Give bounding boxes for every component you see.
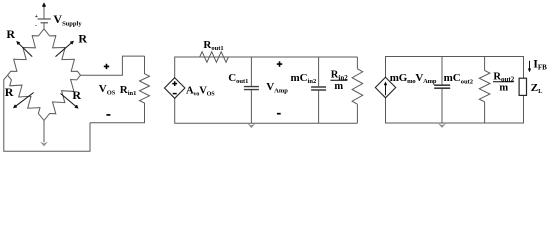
wire	[43, 23, 45, 29]
capacitor mCin2	[318, 57, 320, 123]
svg-text:m: m	[334, 81, 343, 92]
impedance Z_L (box)	[519, 78, 526, 95]
svg-text:R: R	[72, 88, 81, 102]
svg-text:AvoVOS: AvoVOS	[186, 85, 215, 97]
wire right of bridge	[81, 56, 145, 75]
svg-text:VSupply: VSupply	[53, 12, 82, 28]
arrow (variable R bottom-left)	[13, 93, 34, 109]
arrow (variable R top-right)	[56, 41, 75, 57]
ground (middle)	[248, 124, 256, 129]
wire middle loop	[175, 57, 358, 123]
resistor R (top-left)	[8, 29, 44, 75]
wire left loop	[4, 75, 90, 151]
svg-text:-: -	[35, 23, 37, 29]
svg-text:R: R	[78, 32, 87, 46]
svg-text:mGmoVAmp: mGmoVAmp	[390, 72, 437, 85]
svg-text:mCout2: mCout2	[444, 72, 473, 85]
capacitor mCout2	[434, 85, 450, 88]
resistor Rout1	[200, 52, 229, 63]
svg-text:R: R	[6, 27, 15, 41]
wire right loop	[386, 57, 524, 124]
dependent source U2 mGmo*Vamp (diamond, current)	[375, 77, 395, 98]
svg-text:VAmp: VAmp	[266, 81, 288, 94]
label + (Vamp)	[277, 61, 282, 66]
dependent source U1 Avo*Vos (diamond)	[165, 78, 185, 99]
svg-text:ZL: ZL	[531, 82, 543, 95]
resistor Rin1	[90, 56, 150, 123]
label + (Vos)	[104, 64, 109, 69]
label - (Vamp)	[277, 113, 281, 115]
resistor Rin2/m	[352, 69, 363, 104]
resistor R (top-right)	[44, 29, 81, 75]
svg-text:+: +	[35, 14, 39, 20]
resistor R (bottom-right)	[44, 75, 81, 120]
arrow (variable R top-left)	[16, 41, 32, 57]
svg-text:Rin1: Rin1	[120, 84, 137, 97]
ground (right)	[438, 123, 446, 128]
resistor Rout2/m	[479, 71, 490, 102]
ground (bridge)	[43, 121, 45, 143]
resistor R (bottom-left)	[8, 75, 44, 120]
label - (Vos)	[106, 114, 110, 116]
svg-text:IFB: IFB	[533, 57, 547, 72]
svg-text:Cout1: Cout1	[228, 72, 248, 85]
svg-text:m: m	[499, 83, 508, 94]
arrow I_FB	[528, 61, 531, 73]
svg-text:R: R	[5, 85, 14, 99]
capacitor Cout1	[250, 57, 252, 123]
battery V_Supply	[35, 2, 51, 29]
svg-text:Rout1: Rout1	[203, 39, 223, 52]
svg-text:VOS: VOS	[99, 83, 116, 96]
arrow (variable R bottom-right)	[61, 94, 79, 109]
svg-text:mCin2: mCin2	[291, 72, 317, 85]
